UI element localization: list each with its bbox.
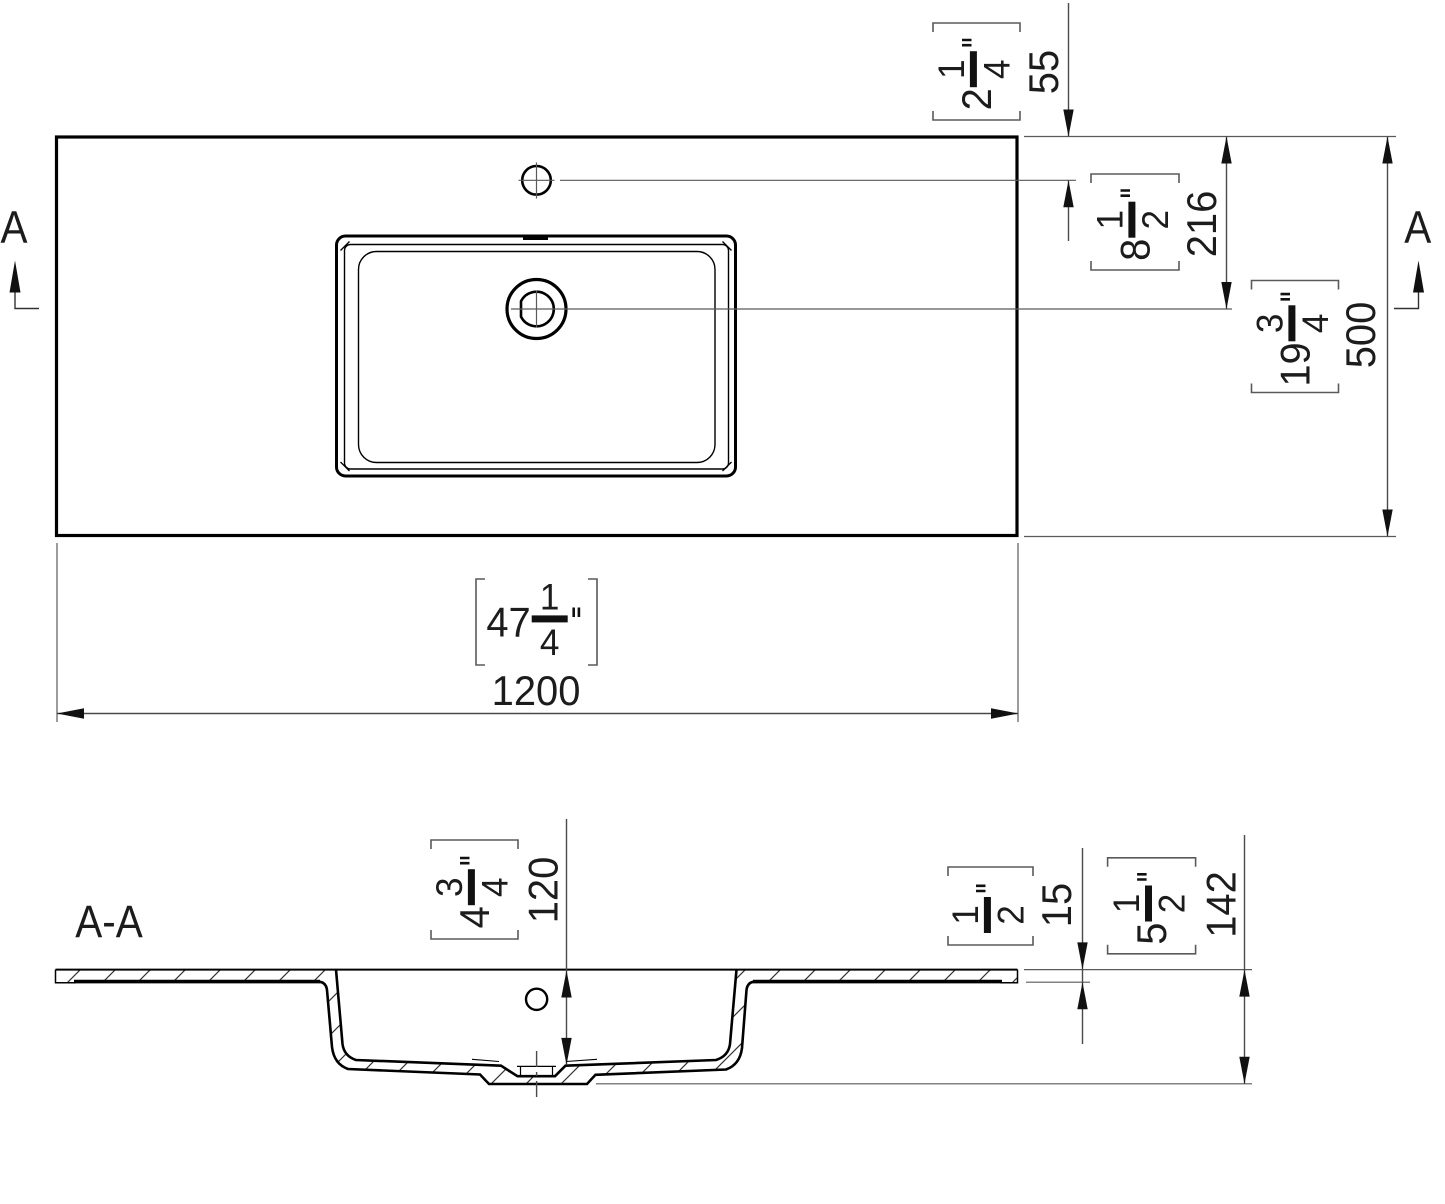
label [1/2"] xyxy=(944,867,1033,945)
svg-text:1200: 1200 xyxy=(492,667,581,714)
svg-text:216: 216 xyxy=(1178,191,1225,258)
svg-text:1: 1 xyxy=(1105,894,1147,914)
drain centreline extension xyxy=(511,308,1232,310)
label [2 1/4"] xyxy=(930,23,1020,120)
label 500 xyxy=(1337,302,1384,369)
drain hole outer xyxy=(507,280,566,339)
label [47 1/4"] xyxy=(476,576,597,665)
svg-text:4: 4 xyxy=(1294,314,1336,334)
svg-text:2: 2 xyxy=(990,905,1032,925)
drain recess details xyxy=(517,1066,556,1076)
label 120 xyxy=(519,857,566,924)
slab bottom extension xyxy=(1026,981,1090,983)
faucet centreline extension xyxy=(560,179,1076,181)
svg-text:A-A: A-A xyxy=(75,897,143,947)
label 142 xyxy=(1197,871,1244,938)
countertop outline (plan view 1200x500) xyxy=(57,137,1018,536)
section hatch: cut material (slabs + bowl shell) xyxy=(56,970,1018,1084)
svg-text:2: 2 xyxy=(1151,894,1193,914)
svg-text:3: 3 xyxy=(1249,314,1291,334)
svg-text:1: 1 xyxy=(930,59,972,79)
right extension line xyxy=(1017,543,1019,722)
drain hole inner xyxy=(521,292,554,327)
label 15 xyxy=(1033,883,1080,927)
bowl inner profile xyxy=(336,970,737,1077)
svg-text:A: A xyxy=(0,203,27,253)
section marker A right xyxy=(1404,203,1431,253)
basin outer rim xyxy=(337,236,736,476)
left extension line xyxy=(56,543,58,722)
dim 55 line upper xyxy=(1068,3,1070,137)
basin inner rim line xyxy=(345,245,729,470)
drain centreline (dash-dot) xyxy=(536,1051,538,1099)
dim 216 line xyxy=(1226,137,1228,310)
svg-text:47: 47 xyxy=(486,599,530,646)
svg-text:55: 55 xyxy=(1020,50,1067,94)
dim 500 line xyxy=(1387,137,1389,537)
label A-A xyxy=(75,897,143,947)
label [5 1/2"] xyxy=(1105,858,1195,954)
dim 15 line xyxy=(1082,848,1084,1044)
svg-text:8: 8 xyxy=(1112,239,1159,261)
svg-text:120: 120 xyxy=(519,857,566,924)
bowl outer profile xyxy=(318,982,755,1084)
label 55 xyxy=(1020,50,1067,94)
section marker A left xyxy=(0,203,27,253)
svg-text:A: A xyxy=(1404,203,1431,253)
section right slab bottom xyxy=(1000,970,1018,983)
basin slope top edge xyxy=(359,252,716,463)
svg-text:19: 19 xyxy=(1272,342,1319,386)
label [8 1/2"] xyxy=(1089,174,1179,270)
faucet hole in elevation xyxy=(526,989,547,1010)
top surface extension xyxy=(1024,969,1252,971)
svg-text:5: 5 xyxy=(1128,923,1175,945)
svg-text:3: 3 xyxy=(428,877,470,897)
svg-text:500: 500 xyxy=(1337,302,1384,369)
label [19 3/4"] xyxy=(1249,281,1339,393)
svg-text:2: 2 xyxy=(1134,210,1176,230)
svg-text:4: 4 xyxy=(474,877,516,897)
drain centrelines xyxy=(536,291,538,328)
label 216 xyxy=(1178,191,1225,258)
bottom extension line xyxy=(596,1083,1252,1085)
faucet hole centrelines xyxy=(519,163,555,199)
faucet hole xyxy=(522,166,551,195)
bottom edge extension line xyxy=(1024,536,1396,538)
svg-text:4: 4 xyxy=(976,59,1018,79)
section top surface line xyxy=(56,969,1018,971)
dim 55 line lower xyxy=(1068,180,1070,241)
label 1200 xyxy=(492,667,581,714)
svg-text:4: 4 xyxy=(540,621,560,663)
svg-text:2: 2 xyxy=(953,88,1000,110)
svg-text:1: 1 xyxy=(540,576,560,618)
overflow slot mark xyxy=(523,235,548,241)
top edge extension line xyxy=(1024,136,1396,138)
label [4 3/4"] xyxy=(428,840,518,939)
svg-text:4: 4 xyxy=(451,906,498,928)
svg-text:1: 1 xyxy=(944,905,986,925)
basin corner chamfer ticks xyxy=(341,242,732,472)
section left slab bottom xyxy=(56,970,77,983)
svg-text:15: 15 xyxy=(1033,883,1080,927)
svg-text:142: 142 xyxy=(1197,871,1244,938)
dim 142 line xyxy=(1244,835,1246,1084)
dim 1200 line xyxy=(57,713,1018,715)
svg-text:1: 1 xyxy=(1089,210,1131,230)
dim 120 line xyxy=(566,819,568,1065)
